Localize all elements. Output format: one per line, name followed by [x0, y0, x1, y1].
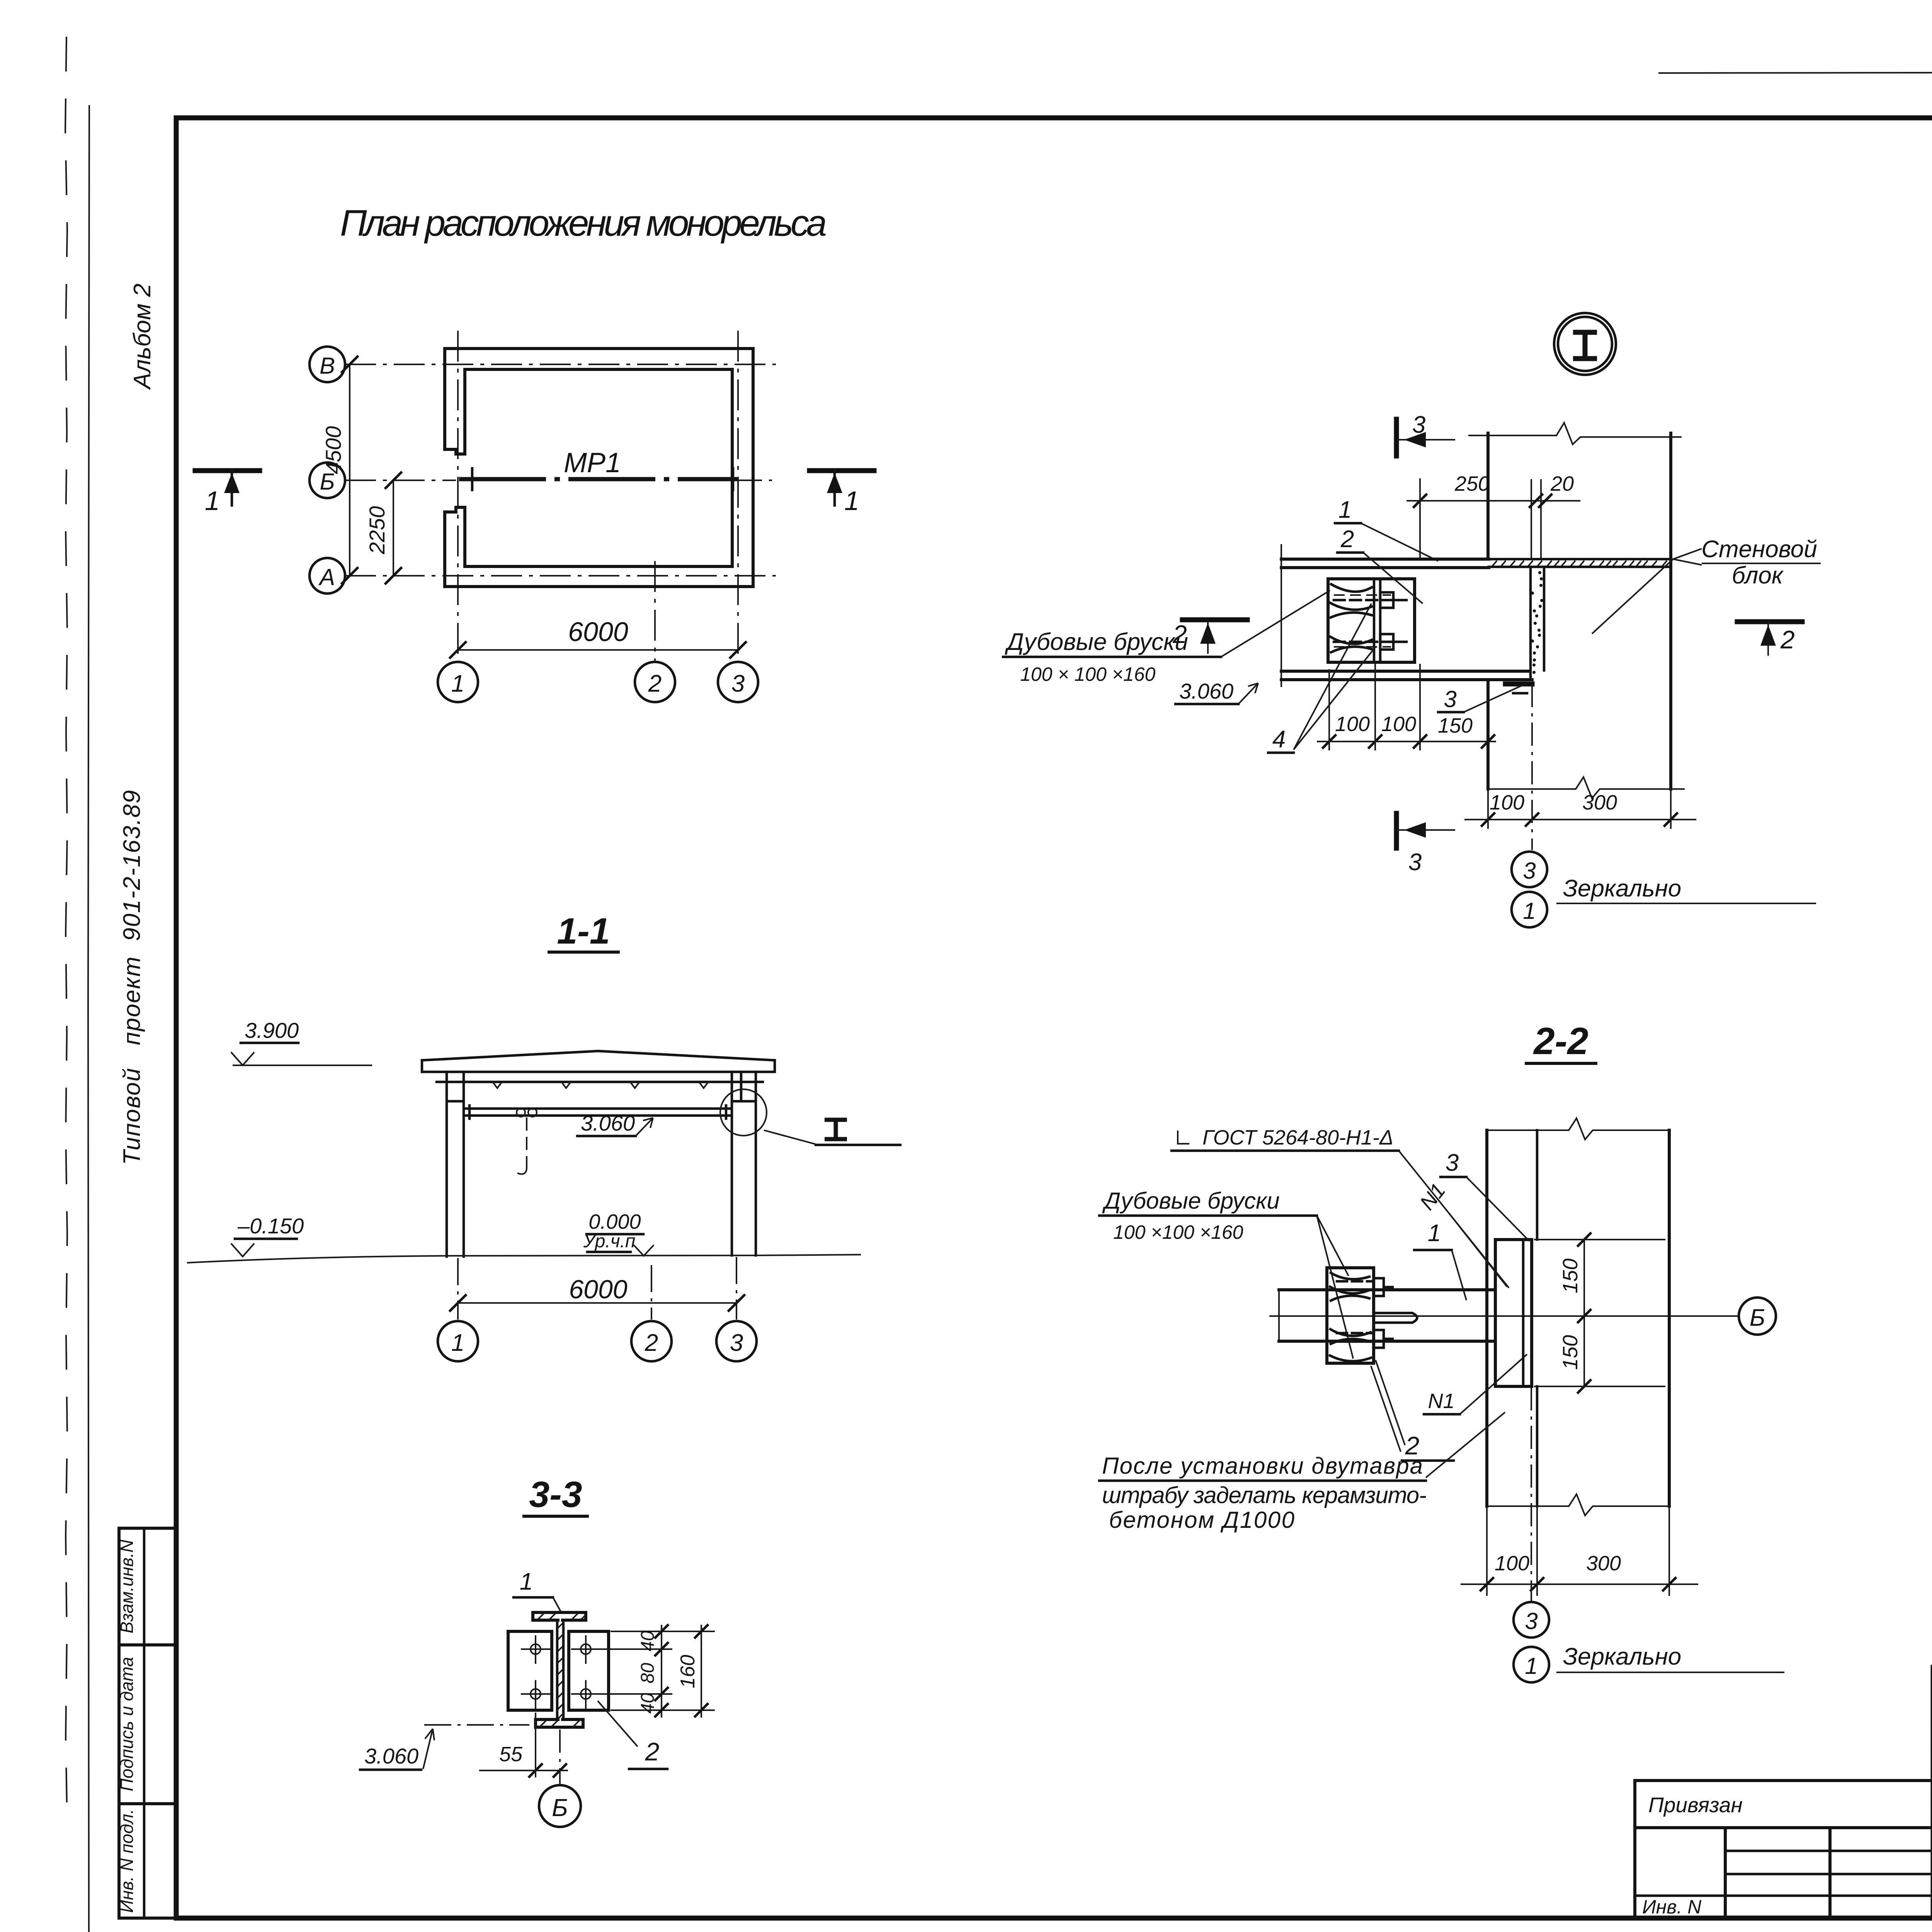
bolt lower head: [1374, 1330, 1384, 1348]
section mark 1 left: [195, 468, 260, 473]
bolt 4 lower nut: [1380, 634, 1393, 650]
axis line Б left: [345, 480, 456, 481]
svg-text:3: 3: [1446, 1150, 1459, 1176]
dim line 40 80 40: [661, 1625, 662, 1718]
wall right face: [1668, 1130, 1671, 1506]
dim 6000: [458, 1302, 736, 1304]
beam plan bottom edge: [1279, 1340, 1495, 1343]
svg-text:3: 3: [1412, 412, 1425, 438]
svg-text:150: 150: [1559, 1259, 1582, 1293]
svg-text:3.060: 3.060: [364, 1744, 418, 1768]
axis line 1: [457, 331, 459, 662]
axis circle 2: [631, 1321, 672, 1361]
dim 250 20: [1406, 500, 1580, 502]
right plate 2: [569, 1631, 609, 1710]
svg-text:1: 1: [1523, 898, 1536, 924]
axis circle Б: [1739, 1298, 1776, 1335]
dim line 6000: [458, 649, 738, 651]
dim line 4500: [349, 364, 350, 576]
svg-text:4500: 4500: [321, 426, 345, 474]
svg-text:Стеновой: Стеновой: [1701, 536, 1817, 563]
svg-text:Зеркально: Зеркально: [1563, 875, 1681, 902]
detail circle I: [720, 1089, 767, 1136]
wall outline right: [752, 349, 755, 587]
svg-text:МР1: МР1: [564, 447, 621, 478]
oak blocks box: [1328, 579, 1415, 662]
plate N1: [1495, 1240, 1532, 1386]
svg-text:1: 1: [1338, 497, 1352, 523]
section mark 2 right: [1737, 619, 1802, 624]
svg-text:100 × 100 ×160: 100 × 100 ×160: [1020, 663, 1156, 685]
bolt upper head: [1374, 1278, 1384, 1296]
axis circle 1: [438, 1321, 478, 1361]
svg-text:блок: блок: [1732, 562, 1784, 589]
wall block right edge: [1669, 433, 1672, 789]
svg-text:1-1: 1-1: [557, 911, 610, 952]
svg-text:6000: 6000: [569, 1275, 627, 1304]
wall inner line: [1536, 1130, 1539, 1506]
axis line 2: [654, 561, 656, 662]
svg-text:3: 3: [1525, 1608, 1537, 1634]
bolt hole LB: [531, 1689, 541, 1699]
svg-text:2: 2: [1172, 620, 1187, 648]
svg-text:2: 2: [645, 1737, 660, 1766]
svg-text:150: 150: [1438, 714, 1473, 737]
TITLEBLOCK: [1635, 1667, 1932, 1932]
paper left torn edge dashed: [65, 37, 67, 1826]
svg-text:Привязан: Привязан: [1648, 1793, 1743, 1817]
svg-text:В: В: [320, 353, 335, 379]
monorail beam side view: [466, 1109, 730, 1116]
left column: [447, 1072, 464, 1257]
weld label ГОСТ 5264-80-Н1-Д: [1178, 1131, 1189, 1144]
detail mark I glyph: [825, 1120, 847, 1139]
trolley: [517, 1108, 525, 1117]
svg-text:А: А: [318, 564, 335, 590]
chase stipple: [1531, 571, 1543, 674]
S33: [360, 1474, 715, 1827]
dim line 160: [701, 1625, 702, 1718]
svg-text:1: 1: [520, 1568, 533, 1595]
svg-text:2: 2: [648, 670, 662, 697]
axis circle 3: [716, 1321, 757, 1361]
wall inner room: [465, 369, 732, 566]
svg-text:После установки двутавра: После установки двутавра: [1102, 1453, 1423, 1479]
svg-text:40: 40: [638, 1631, 658, 1651]
bolt 4 upper dashed: [1334, 599, 1391, 602]
svg-text:1: 1: [451, 670, 464, 697]
chase axis dash-dot to circles: [1531, 684, 1533, 850]
svg-text:1: 1: [844, 486, 859, 516]
svg-text:3: 3: [730, 1330, 743, 1356]
side stamp box: [119, 1528, 176, 1918]
bolt hole RT: [581, 1644, 591, 1654]
svg-text:3: 3: [1408, 849, 1422, 876]
svg-text:2: 2: [1780, 625, 1795, 654]
svg-text:Инв. N подл.: Инв. N подл.: [117, 1809, 137, 1913]
left plate 2: [508, 1631, 552, 1710]
svg-text:Типовой проект 901-2-163.89: Типовой проект 901-2-163.89: [119, 790, 145, 1165]
bolt 4 lower dashed: [1334, 641, 1391, 643]
МР1 end ticks: [471, 468, 474, 490]
section mark 1 right: [810, 468, 874, 473]
axis Б line: [1269, 1315, 1738, 1317]
axis circle Б: [539, 1785, 581, 1827]
dim 100 100 150: [1317, 741, 1496, 742]
привязан box: [1635, 1781, 1932, 1918]
axis circle А: [310, 558, 345, 594]
svg-text:0.000: 0.000: [588, 1210, 641, 1233]
I-beam web: [557, 1620, 563, 1719]
svg-text:бетоном Д1000: бетоном Д1000: [1109, 1507, 1294, 1533]
wall outline bottom: [445, 585, 753, 588]
LEFTMARGIN: [117, 284, 176, 1918]
svg-text:20: 20: [1550, 472, 1574, 495]
PLAN: [195, 202, 874, 702]
axis line Б right: [739, 480, 776, 481]
section mark 2 left: [1182, 617, 1247, 622]
circle 3 mirrored: [1512, 852, 1547, 887]
svg-text:Дубовые бруски: Дубовые бруски: [1102, 1188, 1280, 1214]
UZEL: [1003, 313, 1821, 927]
dim extensions: [592, 1631, 715, 1710]
oak blocks plan box: [1327, 1268, 1374, 1363]
svg-text:160: 160: [677, 1655, 699, 1689]
floor slab strip: [1489, 559, 1671, 567]
dim 100 300 bottom: [1464, 819, 1696, 820]
svg-text:1: 1: [1525, 1653, 1537, 1679]
svg-text:6000: 6000: [568, 617, 628, 647]
svg-text:Подпись и дата: Подпись и дата: [117, 1657, 137, 1791]
bolt lower dashed: [1337, 1333, 1372, 1342]
plate axis dash-dot: [1531, 1387, 1532, 1602]
beam web fork: [1374, 1313, 1417, 1323]
svg-text:3: 3: [1523, 858, 1536, 884]
S11: [187, 911, 900, 1361]
svg-text:–0.150: –0.150: [237, 1214, 304, 1238]
svg-text:Дубовые бруски: Дубовые бруски: [1005, 629, 1188, 655]
I-beam top flange: [533, 1612, 586, 1620]
wall outline top: [445, 347, 753, 350]
svg-text:Зеркально: Зеркально: [1563, 1643, 1681, 1670]
svg-text:3.900: 3.900: [245, 1018, 299, 1043]
svg-text:55: 55: [499, 1743, 523, 1766]
ground line: [187, 1255, 861, 1263]
svg-text:4: 4: [1272, 726, 1286, 753]
paper top edge line: [1658, 71, 1932, 73]
I-beam bottom flange: [536, 1719, 583, 1727]
wood grain: [1330, 584, 1372, 652]
svg-text:150: 150: [1559, 1335, 1582, 1370]
svg-text:N1: N1: [1428, 1389, 1454, 1413]
svg-text:Инв. N: Инв. N: [1642, 1896, 1702, 1918]
svg-text:ГОСТ 5264-80-Н1-Δ: ГОСТ 5264-80-Н1-Δ: [1202, 1126, 1393, 1149]
right column: [732, 1072, 756, 1255]
beam plan top edge: [1279, 1288, 1495, 1291]
circle 1 mirrored: [1514, 1647, 1549, 1682]
beam left witness line: [1281, 544, 1282, 687]
circle 3 mirrored: [1514, 1602, 1549, 1638]
beam left end cap: [1278, 1290, 1280, 1341]
wall block left edge lower: [1486, 683, 1490, 789]
svg-text:Б: Б: [552, 1794, 568, 1821]
bolt hole RB: [581, 1689, 591, 1699]
dim 150 150: [1583, 1240, 1585, 1386]
section mark 3 top: [1394, 419, 1399, 456]
beam bottom flange: [1281, 671, 1532, 680]
svg-text:3: 3: [1444, 686, 1456, 712]
dim line 2250: [393, 480, 394, 576]
svg-text:3.060: 3.060: [581, 1111, 635, 1135]
section mark 3 bottom: [1394, 813, 1399, 848]
wall top break line: [1468, 423, 1682, 444]
roof top chord: [422, 1051, 775, 1060]
svg-text:3: 3: [731, 670, 745, 697]
S22: [1099, 1020, 1784, 1682]
wall left lower segment: [445, 507, 465, 587]
beam end plate at wall: [1505, 682, 1532, 687]
axis line 3: [737, 331, 739, 662]
circle 1 mirrored: [1512, 892, 1547, 927]
bolt hole LT: [531, 1644, 541, 1654]
axis circle 2: [635, 662, 675, 702]
wall face line: [1485, 1130, 1488, 1506]
svg-text:3.060: 3.060: [1179, 679, 1233, 703]
ceiling line with panel joints: [437, 1081, 763, 1083]
svg-text:2-2: 2-2: [1533, 1020, 1588, 1062]
chase (shtraba) walls: [1531, 479, 1541, 559]
svg-text:1: 1: [1428, 1220, 1441, 1247]
svg-text:1: 1: [205, 486, 220, 516]
svg-text:100: 100: [1381, 713, 1416, 736]
wall left upper segment: [445, 349, 465, 454]
axis circle 1: [438, 662, 478, 702]
svg-text:100: 100: [1490, 791, 1524, 814]
svg-text:100: 100: [1495, 1552, 1529, 1575]
paper left edge line: [88, 105, 89, 1932]
svg-text:План расположения монорельса: План расположения монорельса: [340, 202, 827, 244]
wall block left edge upper: [1486, 433, 1490, 559]
svg-text:Взам.инв.N: Взам.инв.N: [117, 1539, 137, 1633]
monorail МР1 centerline: [459, 477, 738, 481]
wood grain plan: [1330, 1273, 1371, 1361]
svg-text:Альбом 2: Альбом 2: [129, 284, 156, 391]
roof slab bottom: [422, 1060, 775, 1072]
svg-text:300: 300: [1582, 791, 1617, 814]
svg-text:80: 80: [638, 1663, 658, 1684]
bolt 4 upper nut: [1380, 592, 1393, 608]
wall bottom break: [1487, 1494, 1669, 1515]
svg-text:1: 1: [451, 1330, 464, 1356]
svg-text:Б: Б: [1750, 1304, 1765, 1331]
node I marker circle: [1554, 313, 1616, 375]
svg-text:40: 40: [638, 1693, 658, 1714]
axis circle В: [310, 347, 345, 382]
dim 100 300: [1487, 1506, 1669, 1596]
axis dash-dot to Б: [559, 1730, 561, 1784]
axis circle 3: [718, 662, 758, 702]
svg-text:2250: 2250: [365, 506, 389, 555]
svg-text:2: 2: [1340, 526, 1354, 553]
axis line В: [345, 364, 776, 365]
svg-text:100 ×100 ×160: 100 ×100 ×160: [1113, 1221, 1243, 1243]
wall bottom break line: [1488, 777, 1685, 798]
svg-text:штрабу заделать керамзито-: штрабу заделать керамзито-: [1102, 1482, 1427, 1508]
axis extensions: [457, 1258, 459, 1320]
axis line А: [345, 575, 776, 577]
clamp plate in box: [1374, 579, 1380, 662]
svg-text:100: 100: [1335, 713, 1370, 736]
node I marker I-beam glyph: [1573, 332, 1597, 359]
wall top break: [1487, 1118, 1669, 1139]
svg-text:300: 300: [1586, 1552, 1621, 1575]
svg-text:250: 250: [1454, 472, 1490, 495]
svg-text:3-3: 3-3: [529, 1474, 582, 1515]
svg-text:Ур.ч.п: Ур.ч.п: [583, 1231, 636, 1252]
beam top flange: [1281, 559, 1489, 568]
svg-text:2: 2: [645, 1330, 658, 1356]
bolt upper dashed: [1337, 1281, 1372, 1290]
slab hatch: [1492, 561, 1667, 566]
hook 5: [517, 1159, 527, 1174]
axis circle Б: [310, 463, 345, 498]
